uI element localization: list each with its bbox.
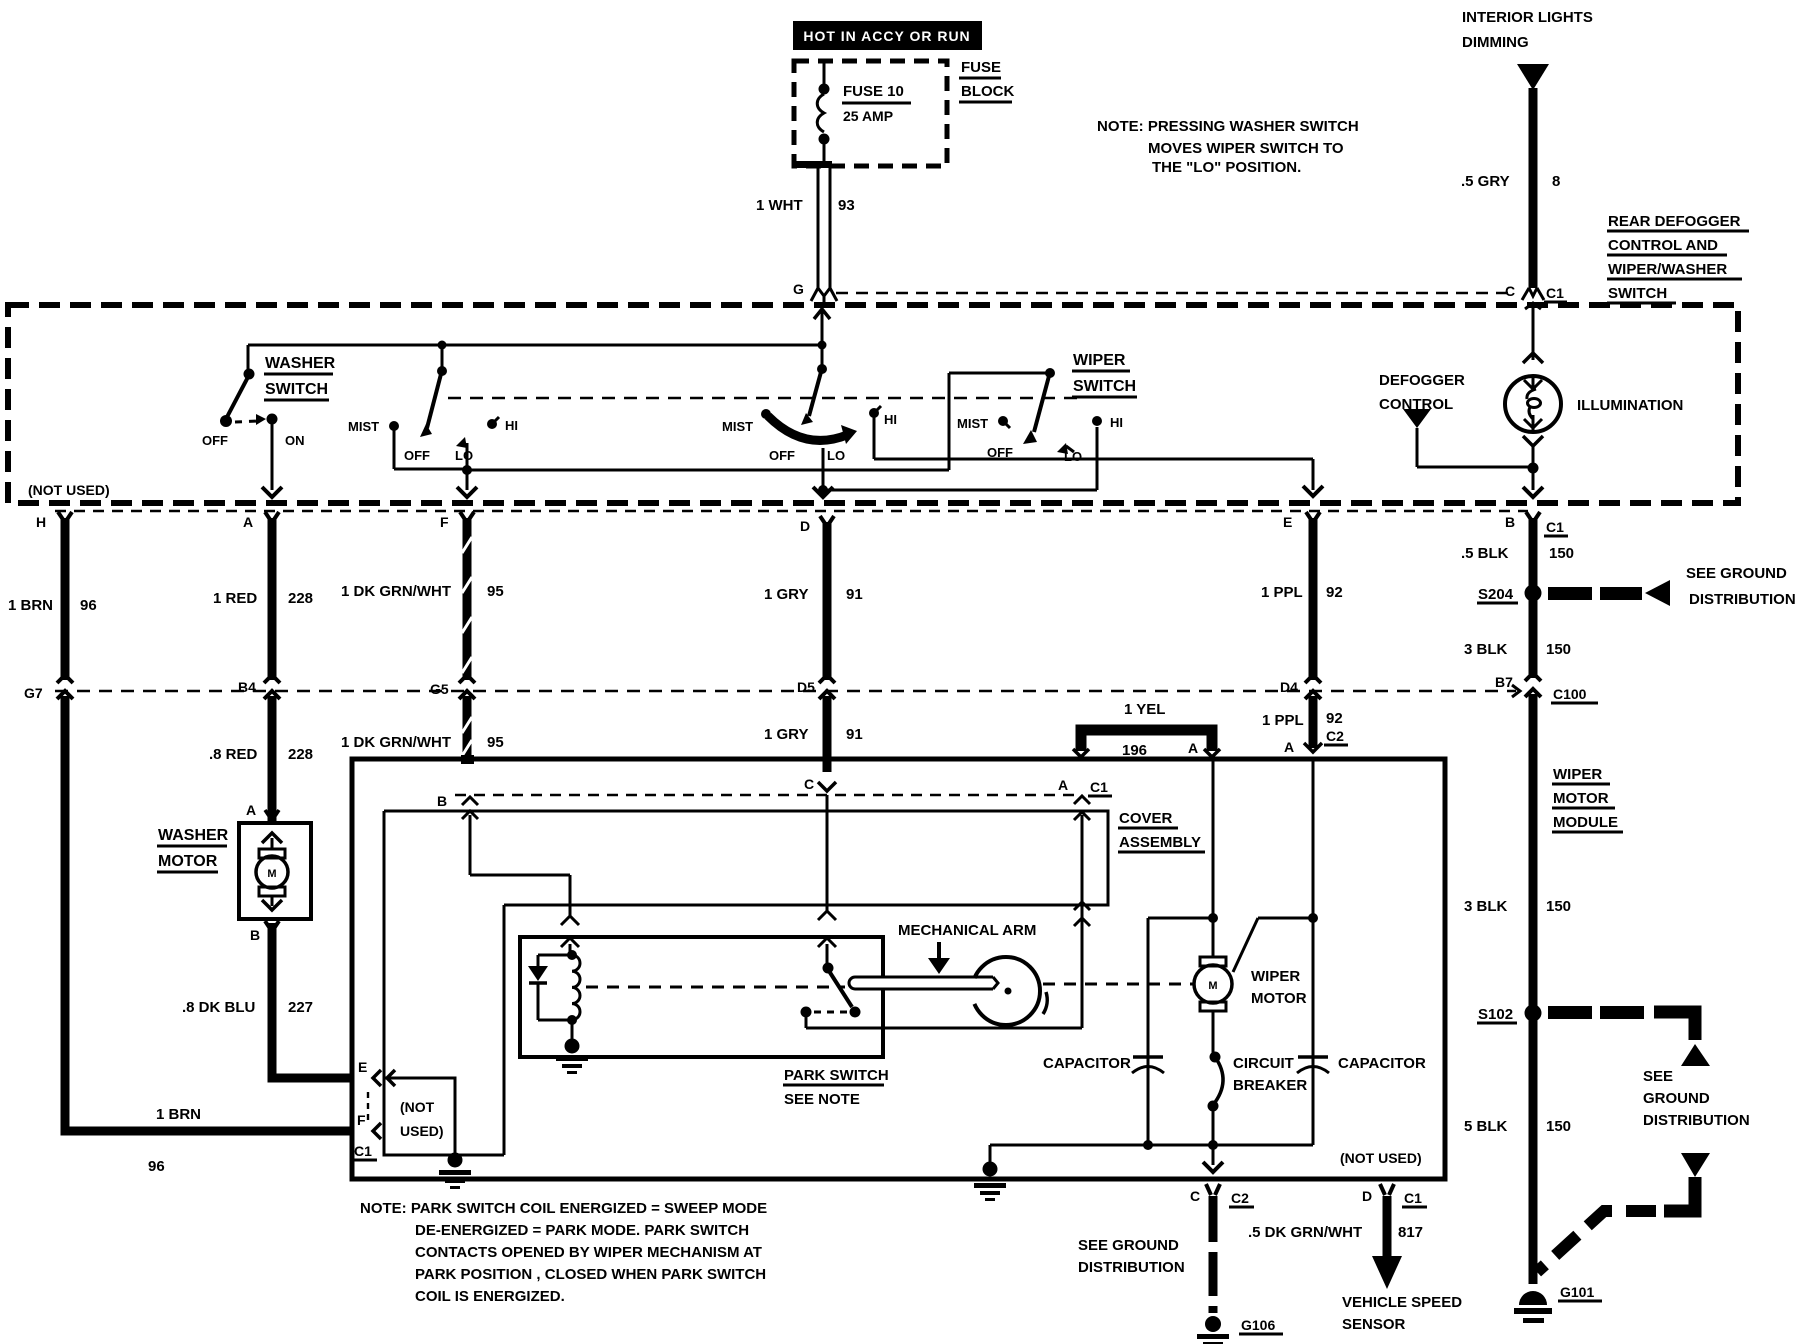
svg-text:C: C	[804, 776, 814, 792]
svg-text:BREAKER: BREAKER	[1233, 1077, 1307, 1094]
svg-text:THE "LO" POSITION.: THE "LO" POSITION.	[1152, 159, 1301, 176]
mechanical linkage to motor	[1043, 983, 1194, 986]
svg-text:LO: LO	[1064, 449, 1082, 464]
module label	[1552, 766, 1623, 832]
defogger control label	[1379, 372, 1465, 413]
svg-text:1 GRY: 1 GRY	[764, 586, 808, 603]
svg-text:WIPER: WIPER	[1073, 352, 1126, 369]
rear defogger control label	[1607, 213, 1749, 303]
harness dashed line G to C	[836, 292, 1516, 294]
svg-text:MODULE: MODULE	[1553, 814, 1618, 831]
svg-text:SWITCH: SWITCH	[1608, 285, 1667, 302]
svg-text:SENSOR: SENSOR	[1342, 1316, 1406, 1333]
washer switch label	[264, 355, 336, 400]
svg-text:REAR DEFOGGER: REAR DEFOGGER	[1608, 213, 1741, 230]
svg-text:.8 DK BLU: .8 DK BLU	[182, 999, 255, 1016]
svg-text:92: 92	[1326, 710, 1343, 727]
cover assembly C1 dashed line	[437, 776, 1112, 809]
svg-text:WIPER/WASHER: WIPER/WASHER	[1608, 261, 1727, 278]
diode	[528, 955, 572, 1020]
connector C C2 below module	[1190, 1184, 1254, 1207]
connector line C100	[55, 690, 1516, 692]
hot-in-accy banner	[793, 21, 982, 50]
svg-text:B7: B7	[1495, 674, 1513, 690]
svg-text:5 BLK: 5 BLK	[1464, 1118, 1508, 1135]
svg-text:228: 228	[288, 590, 313, 607]
svg-text:C1: C1	[1090, 779, 1108, 795]
wiper switch left gang	[348, 345, 518, 497]
not used box	[384, 1078, 455, 1155]
svg-text:SEE NOTE: SEE NOTE	[784, 1091, 860, 1108]
connector D4	[1280, 675, 1321, 699]
svg-text:C: C	[1505, 283, 1515, 299]
wire 1 YEL 196	[1073, 701, 1220, 759]
svg-text:1 BRN: 1 BRN	[156, 1106, 201, 1123]
labels 5 BLK	[1464, 1118, 1571, 1135]
svg-text:A: A	[243, 514, 253, 530]
svg-text:25 AMP: 25 AMP	[843, 108, 893, 124]
svg-text:WASHER: WASHER	[158, 827, 229, 844]
svg-text:150: 150	[1546, 641, 1571, 658]
svg-text:OFF: OFF	[202, 433, 228, 448]
svg-text:NOTE: PARK SWITCH COIL ENERGIZ: NOTE: PARK SWITCH COIL ENERGIZED = SWEEP…	[360, 1200, 767, 1217]
svg-text:150: 150	[1546, 1118, 1571, 1135]
svg-text:150: 150	[1549, 545, 1574, 562]
svg-text:.5 BLK: .5 BLK	[1461, 545, 1509, 562]
svg-text:LO: LO	[827, 448, 845, 463]
svg-text:150: 150	[1546, 898, 1571, 915]
svg-text:.5 GRY: .5 GRY	[1461, 173, 1510, 190]
svg-text:D: D	[800, 518, 810, 534]
mechanical gang dashed line	[448, 397, 1085, 399]
svg-text:8: 8	[1552, 173, 1560, 190]
cam rotor	[930, 957, 1047, 1025]
svg-text:MOTOR: MOTOR	[1553, 790, 1609, 807]
svg-text:CAPACITOR: CAPACITOR	[1338, 1055, 1426, 1072]
mechanical linkage dashes	[586, 986, 845, 989]
svg-text:A: A	[1058, 777, 1068, 793]
wiper switch right gang	[957, 368, 1123, 464]
wire .5 GRY 8	[1461, 88, 1560, 288]
connector D C1 below module	[1362, 1184, 1427, 1207]
svg-text:C1: C1	[1404, 1190, 1422, 1206]
left capacitor branch	[1043, 918, 1213, 1145]
svg-text:D5: D5	[797, 679, 815, 695]
svg-text:DISTRIBUTION: DISTRIBUTION	[1689, 591, 1796, 608]
park switch label	[783, 1067, 889, 1108]
wire .5 BLK 150 / 3 BLK 150 (B)	[1461, 512, 1574, 1284]
svg-text:HOT IN ACCY OR RUN: HOT IN ACCY OR RUN	[803, 28, 970, 44]
svg-text:DIMMING: DIMMING	[1462, 34, 1529, 51]
connector G	[793, 281, 837, 302]
svg-text:CAPACITOR: CAPACITOR	[1043, 1055, 1131, 1072]
svg-text:B: B	[1505, 514, 1515, 530]
svg-text:MOVES WIPER SWITCH TO: MOVES WIPER SWITCH TO	[1148, 140, 1344, 157]
svg-text:A: A	[246, 802, 256, 818]
svg-text:ON: ON	[285, 433, 305, 448]
svg-text:93: 93	[838, 197, 855, 214]
svg-text:G5: G5	[430, 681, 449, 697]
svg-text:G101: G101	[1560, 1284, 1594, 1300]
coil ground	[556, 1020, 588, 1074]
F wire junction at module top	[461, 755, 474, 764]
svg-text:WIPER: WIPER	[1553, 766, 1602, 783]
svg-text:1 GRY: 1 GRY	[764, 726, 808, 743]
svg-text:HI: HI	[505, 418, 518, 433]
svg-text:DE-ENERGIZED = PARK MODE. PARK: DE-ENERGIZED = PARK MODE. PARK SWITCH	[415, 1222, 749, 1239]
wire 1 BRN 96 (H)	[8, 512, 352, 1131]
wiper motor module box	[352, 759, 1445, 1179]
wiper switch label	[1072, 352, 1137, 397]
svg-text:228: 228	[288, 746, 313, 763]
svg-text:C2: C2	[1326, 728, 1344, 744]
svg-text:OFF: OFF	[769, 448, 795, 463]
svg-text:WIPER: WIPER	[1251, 968, 1300, 985]
wire 1 PPL 92 (E)	[1261, 512, 1343, 748]
interior lights dimming label	[1462, 9, 1593, 51]
svg-text:G: G	[793, 281, 804, 297]
svg-text:3 BLK: 3 BLK	[1464, 898, 1508, 915]
svg-text:96: 96	[148, 1158, 165, 1175]
park switch box	[520, 937, 883, 1057]
svg-text:C2: C2	[1231, 1190, 1249, 1206]
park switch contacts	[801, 963, 861, 1018]
fuse F10 25A	[794, 62, 832, 168]
splice S204	[1477, 565, 1796, 608]
svg-text:FUSE: FUSE	[961, 59, 1001, 76]
washer switch	[202, 345, 305, 497]
svg-text:MIST: MIST	[348, 419, 379, 434]
connector D5	[797, 675, 835, 699]
wiper switch center gang	[722, 345, 1097, 497]
svg-text:COVER: COVER	[1119, 810, 1173, 827]
svg-text:MIST: MIST	[957, 416, 988, 431]
svg-text:C1: C1	[1546, 285, 1564, 301]
svg-text:227: 227	[288, 999, 313, 1016]
connector G5	[430, 675, 475, 699]
wire .8 DK BLU 227	[182, 921, 352, 1078]
svg-text:HI: HI	[884, 412, 897, 427]
svg-text:G106: G106	[1241, 1317, 1275, 1333]
switch assembly dashed box	[8, 305, 1738, 503]
svg-text:S102: S102	[1478, 1006, 1513, 1023]
note: pressing washer switch	[1097, 118, 1359, 176]
svg-text:196: 196	[1122, 742, 1147, 759]
svg-text:1 DK GRN/WHT: 1 DK GRN/WHT	[341, 583, 451, 600]
ground distribution return arrow	[1537, 1153, 1710, 1272]
svg-text:F: F	[440, 514, 449, 530]
ground G106	[1197, 1316, 1283, 1344]
svg-text:95: 95	[487, 583, 504, 600]
right capacitor branch (PPL riser)	[1233, 761, 1426, 1145]
svg-text:817: 817	[1398, 1224, 1423, 1241]
svg-text:B: B	[250, 927, 260, 943]
labels 3 BLK mid	[1464, 898, 1571, 915]
fuse block box	[794, 59, 1014, 166]
svg-text:E: E	[358, 1059, 367, 1075]
wiper motor M	[1194, 957, 1307, 1011]
svg-text:B4: B4	[238, 679, 256, 695]
svg-text:B: B	[437, 793, 447, 809]
connector letters row	[36, 514, 1568, 536]
svg-text:COIL IS ENERGIZED.: COIL IS ENERGIZED.	[415, 1288, 565, 1305]
mechanical arm bar	[849, 977, 986, 989]
wire .5 DK GRN/WHT 817	[1248, 1196, 1462, 1333]
svg-text:.8 RED: .8 RED	[209, 746, 258, 763]
connector B chevrons	[462, 797, 478, 819]
svg-text:FUSE 10: FUSE 10	[843, 83, 904, 100]
svg-text:D: D	[1362, 1188, 1372, 1204]
svg-text:CONTROL AND: CONTROL AND	[1608, 237, 1718, 254]
svg-text:SWITCH: SWITCH	[1073, 378, 1136, 395]
svg-text:MOTOR: MOTOR	[158, 853, 218, 870]
svg-text:BLOCK: BLOCK	[961, 83, 1014, 100]
svg-text:1 WHT: 1 WHT	[756, 197, 803, 214]
connector C / C1 at switch	[1505, 283, 1567, 302]
wire D to park switch pivot	[818, 782, 836, 965]
svg-text:1 RED: 1 RED	[213, 590, 257, 607]
module ground rail	[974, 1140, 1313, 1201]
svg-text:E: E	[1283, 514, 1292, 530]
lower wire labels	[209, 710, 1348, 763]
wire 1 DK GRN/WHT 95 (F)	[341, 512, 504, 759]
wire to C2 ground	[1203, 1147, 1223, 1172]
svg-text:1 DK GRN/WHT: 1 DK GRN/WHT	[341, 734, 451, 751]
svg-text:MIST: MIST	[722, 419, 753, 434]
svg-text:DISTRIBUTION: DISTRIBUTION	[1078, 1259, 1185, 1276]
defogger control arrow	[1403, 409, 1530, 467]
splice S102	[1477, 1005, 1750, 1130]
svg-text:A: A	[1188, 740, 1198, 756]
wire BLK to G106 (dashed thick)	[1078, 1196, 1218, 1313]
svg-text:SEE GROUND: SEE GROUND	[1078, 1237, 1179, 1254]
connector E F at module edge	[352, 1059, 395, 1160]
svg-text:INTERIOR LIGHTS: INTERIOR LIGHTS	[1462, 9, 1593, 26]
svg-text:(NOT USED): (NOT USED)	[1340, 1150, 1422, 1166]
svg-text:ASSEMBLY: ASSEMBLY	[1119, 834, 1201, 851]
svg-text:DEFOGGER: DEFOGGER	[1379, 372, 1465, 389]
svg-text:3 BLK: 3 BLK	[1464, 641, 1508, 658]
note: park switch coil	[360, 1200, 767, 1305]
cover assembly box	[384, 810, 1205, 1155]
svg-text:92: 92	[1326, 584, 1343, 601]
svg-text:F: F	[357, 1112, 366, 1128]
connector B7 / C100	[1495, 673, 1598, 703]
park switch coil	[567, 950, 580, 1025]
svg-text:LO: LO	[455, 448, 473, 463]
svg-text:1 YEL: 1 YEL	[1124, 701, 1165, 718]
svg-text:(NOT USED): (NOT USED)	[28, 482, 110, 498]
svg-text:ILLUMINATION: ILLUMINATION	[1577, 397, 1683, 414]
mechanical arm label	[898, 922, 1036, 974]
svg-text:DISTRIBUTION: DISTRIBUTION	[1643, 1112, 1750, 1129]
park switch return wire	[806, 796, 1090, 1028]
svg-text:1 PPL: 1 PPL	[1261, 584, 1303, 601]
svg-text:CONTACTS OPENED BY WIPER MECHA: CONTACTS OPENED BY WIPER MECHANISM AT	[415, 1244, 762, 1261]
svg-text:VEHICLE SPEED: VEHICLE SPEED	[1342, 1294, 1462, 1311]
svg-text:MOTOR: MOTOR	[1251, 990, 1307, 1007]
wire 1 WHT 93 (double line)	[756, 168, 855, 288]
svg-text:1 PPL: 1 PPL	[1262, 712, 1304, 729]
svg-text:91: 91	[846, 586, 863, 603]
svg-text:HI: HI	[1110, 415, 1123, 430]
ground at not-used box	[439, 1153, 471, 1190]
svg-text:S204: S204	[1478, 586, 1514, 603]
connector arrow E into module	[1304, 743, 1322, 752]
svg-text:H: H	[36, 514, 46, 530]
connector G7	[24, 675, 73, 701]
svg-text:96: 96	[80, 597, 97, 614]
svg-text:A: A	[1284, 739, 1294, 755]
arrow from interior lights	[1517, 64, 1549, 90]
svg-text:C: C	[1190, 1188, 1200, 1204]
wire lo-feed to right gang	[467, 373, 1046, 470]
wire 1 GRY 91 (D)	[764, 516, 863, 772]
svg-text:C100: C100	[1553, 686, 1587, 702]
svg-text:D4: D4	[1280, 679, 1298, 695]
svg-text:95: 95	[487, 734, 504, 751]
svg-text:C1: C1	[354, 1143, 372, 1159]
washer motor	[239, 802, 311, 943]
svg-text:CIRCUIT: CIRCUIT	[1233, 1055, 1294, 1072]
wire 1 RED 228 (A)	[213, 512, 313, 823]
svg-text:WASHER: WASHER	[265, 355, 336, 372]
svg-text:G7: G7	[24, 685, 43, 701]
feed wire from G	[248, 309, 830, 350]
svg-text:1 BRN: 1 BRN	[8, 597, 53, 614]
svg-text:.5 DK GRN/WHT: .5 DK GRN/WHT	[1248, 1224, 1362, 1241]
connector B4	[238, 675, 280, 699]
svg-text:M: M	[1208, 980, 1217, 992]
svg-text:OFF: OFF	[404, 448, 430, 463]
wire HI to E	[874, 416, 1323, 496]
svg-text:SWITCH: SWITCH	[265, 381, 328, 398]
washer motor label	[157, 827, 229, 872]
svg-text:GROUND: GROUND	[1643, 1090, 1710, 1107]
svg-text:C1: C1	[1546, 519, 1564, 535]
connector row dashed line	[55, 510, 1528, 512]
svg-text:(NOT: (NOT	[400, 1099, 435, 1115]
svg-text:SEE GROUND: SEE GROUND	[1686, 565, 1787, 582]
svg-text:NOTE: PRESSING WASHER SWITCH: NOTE: PRESSING WASHER SWITCH	[1097, 118, 1359, 135]
park switch coil wire from B	[470, 815, 579, 955]
svg-text:PARK POSITION , CLOSED WHEN PA: PARK POSITION , CLOSED WHEN PARK SWITCH	[415, 1266, 766, 1283]
svg-text:MECHANICAL ARM: MECHANICAL ARM	[898, 922, 1036, 939]
svg-text:M: M	[267, 868, 276, 880]
svg-text:91: 91	[846, 726, 863, 743]
svg-text:PARK SWITCH: PARK SWITCH	[784, 1067, 889, 1084]
circuit breaker	[1208, 1011, 1308, 1145]
ground G101	[1514, 1284, 1602, 1323]
illumination lamp	[1505, 303, 1683, 497]
svg-text:SEE: SEE	[1643, 1068, 1673, 1085]
svg-text:USED): USED)	[400, 1123, 444, 1139]
wire 1 BRN 96 lower labels	[148, 1106, 201, 1175]
wiper motor wire (YEL riser)	[1208, 761, 1218, 957]
